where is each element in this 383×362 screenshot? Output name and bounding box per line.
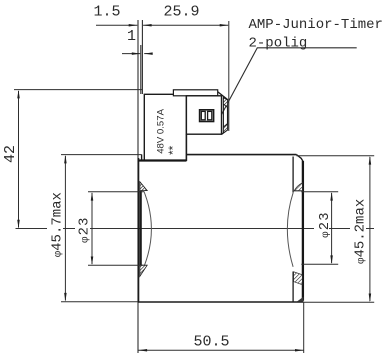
svg-text:42: 42 bbox=[2, 145, 19, 163]
right cap left edge top segment bbox=[292, 157, 294, 193]
right cap right edge bbox=[302, 161, 304, 301]
wire: body left face thick bbox=[137, 158, 139, 302]
svg-text:50.5: 50.5 bbox=[193, 334, 229, 351]
connector lip bbox=[173, 90, 217, 96]
right cap bottom fillet bbox=[297, 297, 304, 302]
dimension phi45.2max extension top bbox=[296, 155, 374, 157]
wire: extension line x=140.8 bbox=[140, 45, 142, 94]
dimension phi45.7max extension bottom bbox=[61, 301, 138, 303]
connector housing U1 bbox=[186, 96, 221, 134]
dimension 42 extension line bbox=[14, 89, 142, 91]
svg-text:1.5: 1.5 bbox=[93, 4, 120, 21]
svg-text:1: 1 bbox=[127, 28, 136, 45]
svg-text:φ45.7max: φ45.7max bbox=[50, 192, 66, 257]
pin 1 bbox=[201, 111, 205, 119]
dimension phi23 left extension top bbox=[88, 191, 144, 193]
right cap crescent arc bbox=[287, 193, 293, 267]
label phi45.2max bbox=[350, 192, 366, 266]
connector label plate bbox=[144, 94, 186, 160]
label phi45.7max bbox=[47, 188, 63, 262]
right cap hatch top bbox=[294, 190, 303, 192]
body bottom edge bbox=[138, 301, 303, 303]
label phi23 left bbox=[75, 212, 90, 252]
dimension phi23 right extension bottom bbox=[301, 263, 338, 265]
nose hatch bottom bbox=[223, 124, 227, 134]
svg-text:φ45.2max: φ45.2max bbox=[353, 199, 369, 264]
right cap left edge bottom segment bbox=[292, 272, 294, 302]
dimension phi45.7max line bbox=[64, 156, 66, 300]
wire: plate stub bbox=[141, 155, 143, 161]
centerline bbox=[16, 228, 375, 230]
dimension phi45.7max extension top bbox=[61, 154, 142, 156]
dimension phi23 right line bbox=[331, 193, 333, 263]
svg-text:AMP-Junior-Timer: AMP-Junior-Timer bbox=[249, 17, 383, 33]
label phi23 right bbox=[314, 209, 329, 249]
step at x=186 bbox=[185, 134, 187, 161]
svg-text:25.9: 25.9 bbox=[163, 4, 199, 21]
label plate bottom thick edge bbox=[138, 159, 186, 161]
connector nose outline bbox=[218, 92, 228, 135]
pin window bbox=[200, 110, 214, 122]
left crescent hatch top bbox=[140, 182, 147, 191]
dimension phi23 left line bbox=[91, 193, 93, 264]
dimension phi23 right extension top bbox=[301, 191, 338, 193]
dimension 50.5 right extension bbox=[303, 302, 305, 353]
nose hatch top bbox=[223, 98, 227, 108]
dimension phi45.2max line bbox=[369, 157, 371, 301]
wire: left face / extension line x=138 bbox=[137, 20, 139, 353]
wire: extension line x=142.4 bbox=[141, 20, 143, 94]
svg-text:φ23: φ23 bbox=[77, 216, 92, 242]
dimension 25.9 extension line bbox=[228, 21, 230, 131]
pin 2 bbox=[208, 111, 212, 119]
dimension 1 line bbox=[122, 53, 140, 55]
leader line bbox=[218, 48, 357, 122]
body top edge right section bbox=[186, 154, 296, 156]
dimension phi23 left extension bottom bbox=[88, 264, 144, 266]
svg-text:2-polig: 2-polig bbox=[249, 35, 308, 51]
right cap chamfer bbox=[296, 155, 303, 162]
svg-text:**: ** bbox=[166, 145, 180, 155]
dimension 1.5 line bbox=[96, 24, 137, 26]
svg-text:φ23: φ23 bbox=[318, 211, 333, 237]
dimension 50.5 line bbox=[138, 349, 303, 351]
left crescent hatch bottom bbox=[140, 265, 147, 276]
connector nose inner edge bbox=[222, 98, 224, 134]
dimension 42 line bbox=[18, 91, 20, 228]
right cap hatch bottom bbox=[294, 272, 303, 285]
left crescent arc bbox=[140, 182, 152, 275]
wire: phi23 plate edge bbox=[139, 191, 141, 265]
dimension phi45.2max extension bottom bbox=[303, 301, 374, 303]
